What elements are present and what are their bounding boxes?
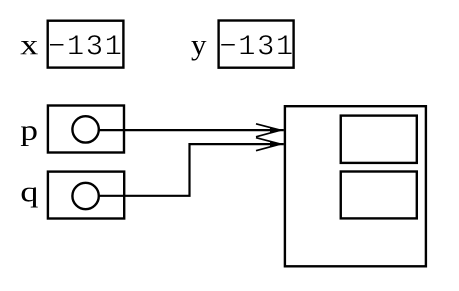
node y label: [191, 41, 206, 61]
node x label: [21, 41, 38, 54]
node y value box: [219, 21, 294, 68]
node q pointer box: [48, 172, 124, 219]
object slot 2: [341, 172, 417, 219]
node q label: [22, 187, 38, 207]
node p pointer circle: [72, 116, 98, 142]
wire q to object: [100, 144, 284, 196]
node q pointer circle: [72, 183, 98, 209]
node p label: [21, 126, 37, 146]
object slot 1: [341, 116, 417, 163]
node y value -131: [221, 44, 235, 46]
arrowhead p: [256, 124, 281, 137]
node x value -131: [50, 44, 64, 46]
object outer box: [285, 106, 426, 266]
wire p to object: [100, 129, 284, 131]
arrowhead q: [256, 138, 281, 151]
node x value box: [48, 21, 124, 68]
node p pointer box: [48, 106, 124, 153]
